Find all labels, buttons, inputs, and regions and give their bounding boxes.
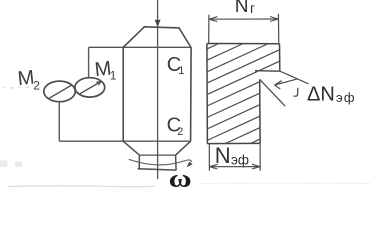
vessel top trapezoid	[123, 27, 191, 48]
delta-N J hook	[293, 88, 297, 96]
vessel bottom cone	[123, 141, 190, 155]
svg-text:N: N	[235, 0, 249, 17]
wire: motor M2 down (vertical)	[58, 101, 60, 141]
motor M1 ellipse	[75, 78, 105, 97]
faint scan smudges left-bottom	[0, 161, 8, 168]
Nef extension line right	[259, 143, 261, 170]
svg-text:2: 2	[177, 126, 183, 138]
Ng dimension line	[209, 18, 278, 20]
svg-text:ΔN: ΔN	[307, 83, 335, 105]
svg-text:1: 1	[110, 69, 117, 83]
bottom edge	[207, 142, 260, 144]
hatching	[207, 44, 280, 144]
delta-N leader from corner	[280, 71, 309, 84]
rotation arc arrowhead	[187, 162, 193, 168]
svg-text:эф: эф	[231, 153, 249, 168]
Nef dim arrow right	[252, 164, 260, 169]
Ng extension line left	[208, 15, 210, 44]
Nef dimension line	[209, 166, 260, 168]
stub top line	[139, 154, 175, 156]
svg-text:2: 2	[33, 79, 40, 93]
rotation arc around stub	[129, 159, 192, 165]
narrow right edge	[259, 80, 261, 144]
svg-text:эф: эф	[336, 90, 356, 105]
step edge	[255, 70, 280, 73]
delta-N long diagonal	[260, 79, 286, 106]
Ng dim arrow right	[270, 17, 278, 22]
svg-text:1: 1	[178, 65, 184, 77]
motor M2 shaft diagonal	[49, 85, 72, 98]
faint scan smudge bottom-right	[200, 182, 370, 184]
wire: shoulder line across vessel (horizontal)	[89, 46, 192, 48]
centerline arrowhead at vessel top	[155, 20, 161, 27]
Ng extension line right	[277, 14, 279, 44]
svg-text:ω: ω	[169, 166, 192, 193]
faint scan smudge bottom-left	[8, 185, 155, 188]
wire: bottom connector / vessel bottom line (horizontal)	[59, 140, 190, 142]
Nef dim arrow left	[209, 164, 217, 169]
motor M2 ellipse	[44, 81, 75, 102]
Ng dim arrow left	[209, 17, 217, 22]
faint scan specks upper-left	[3, 86, 29, 89]
wire: motor M1 to vessel shoulder (vertical)	[88, 47, 90, 78]
Nef extension line left	[208, 144, 210, 171]
vessel left wall	[122, 47, 124, 141]
delta-N pointer arrow	[275, 79, 298, 85]
stub right wall	[175, 155, 178, 170]
vessel centerline	[157, 0, 159, 179]
power diagram outline (stepped block)	[207, 43, 280, 45]
vessel right wall	[190, 48, 193, 142]
stub bottom	[138, 169, 177, 170]
stub left wall	[138, 155, 140, 170]
motor M1 shaft diagonal with arrow	[80, 82, 101, 94]
left edge	[206, 44, 209, 144]
svg-text:г: г	[250, 0, 255, 16]
